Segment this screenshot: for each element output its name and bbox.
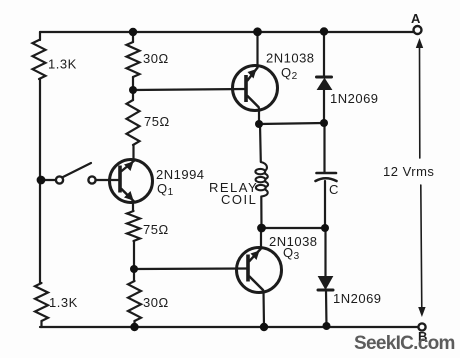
svg-text:A: A [411, 11, 421, 26]
svg-text:75Ω: 75Ω [143, 222, 169, 237]
svg-text:12 Vrms: 12 Vrms [383, 164, 434, 179]
svg-text:Q1: Q1 [157, 181, 174, 198]
svg-text:C: C [329, 182, 339, 197]
svg-text:SeekIC.com: SeekIC.com [354, 333, 455, 354]
svg-text:2N1038: 2N1038 [266, 51, 315, 66]
svg-text:30Ω: 30Ω [143, 295, 169, 310]
svg-text:75Ω: 75Ω [144, 114, 170, 129]
svg-text:COIL: COIL [221, 192, 257, 207]
svg-text:2N1994: 2N1994 [156, 167, 205, 182]
svg-text:1.3K: 1.3K [48, 57, 77, 72]
svg-text:30Ω: 30Ω [143, 51, 169, 66]
svg-text:1.3K: 1.3K [49, 295, 78, 310]
svg-text:1N2069: 1N2069 [330, 91, 379, 106]
svg-text:Q2: Q2 [281, 65, 298, 82]
svg-text:1N2069: 1N2069 [333, 291, 382, 306]
